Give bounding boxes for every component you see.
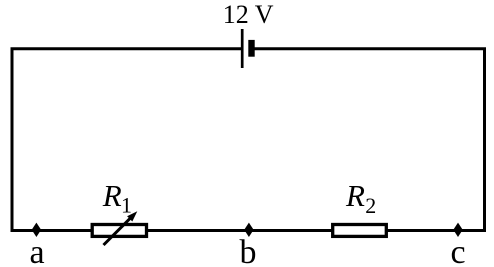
node a junction diamond <box>32 223 41 237</box>
node c junction diamond <box>453 223 462 237</box>
battery B1 long plate (positive terminal) <box>241 29 244 68</box>
svg-text:1: 1 <box>121 192 132 217</box>
battery B1 short thick plate (negative terminal) <box>248 40 254 57</box>
svg-text:12 V: 12 V <box>223 0 274 29</box>
svg-text:2: 2 <box>365 193 376 218</box>
svg-text:a: a <box>29 234 44 267</box>
node b junction diamond <box>244 223 253 237</box>
wire: outer circuit loop (top with battery gap, left, bottom, right) <box>12 49 485 231</box>
resistor R1 body (variable resistor box) <box>92 225 146 237</box>
svg-text:R: R <box>345 178 365 213</box>
svg-text:R: R <box>102 178 122 213</box>
resistor R1 wiper arrow (variable) <box>104 217 132 245</box>
resistor R2 body <box>333 225 387 237</box>
svg-text:b: b <box>240 234 257 267</box>
svg-text:c: c <box>450 234 465 267</box>
